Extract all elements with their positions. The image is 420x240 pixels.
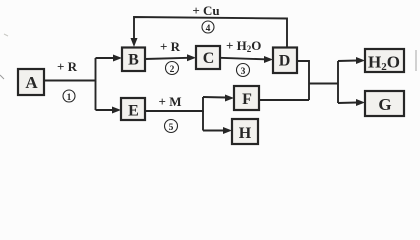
svg-text:+ Cu: + Cu: [192, 3, 219, 18]
wire F to merge: [259, 99, 309, 101]
label +H2O step 3: [226, 38, 261, 54]
svg-text:+ R: + R: [160, 39, 181, 54]
wire D to B (+Cu path): [131, 17, 288, 47]
arrow split to E: [96, 107, 122, 114]
svg-text:H: H: [239, 125, 252, 142]
wire A to split: [44, 58, 96, 110]
svg-text:+ M: + M: [159, 94, 182, 109]
svg-text:A: A: [25, 73, 38, 92]
circled 2: [166, 62, 179, 76]
arrow split to B: [96, 55, 123, 62]
circled 4: [202, 21, 214, 34]
label +M step 5: [159, 94, 182, 109]
box E: [121, 98, 145, 120]
box H: [232, 119, 258, 144]
svg-text:+ R: + R: [57, 59, 78, 74]
svg-text:3: 3: [241, 67, 246, 77]
wire merge to split: [309, 61, 338, 103]
arrow split to F: [203, 95, 234, 102]
smudge right edge: [415, 50, 417, 71]
circled 3: [237, 64, 250, 78]
svg-text:B: B: [128, 52, 139, 69]
circled 1: [63, 90, 75, 103]
box A: [18, 69, 44, 95]
box F: [234, 86, 259, 110]
speck top left: [4, 34, 8, 36]
arrow split to H: [203, 127, 232, 134]
box H2O: [365, 49, 404, 73]
wire D to merge: [297, 61, 309, 100]
svg-text:C: C: [203, 50, 215, 67]
svg-text:G: G: [378, 95, 391, 114]
label +R step 2: [160, 39, 181, 54]
svg-text:1: 1: [67, 93, 72, 103]
arrow split to H2O: [338, 57, 365, 64]
svg-text:5: 5: [169, 123, 174, 133]
svg-text:D: D: [279, 53, 291, 70]
label +R step 1: [57, 59, 78, 74]
arrow B to C: [145, 54, 196, 61]
wire E to split: [145, 97, 203, 131]
svg-text:+ H2O: + H2O: [226, 38, 261, 54]
svg-text:E: E: [128, 103, 139, 120]
box B: [122, 48, 145, 72]
svg-text:F: F: [242, 91, 252, 108]
box G: [365, 91, 404, 116]
svg-text:2: 2: [170, 65, 175, 75]
smudge left edge: [0, 75, 4, 79]
circled 5: [165, 120, 178, 134]
label +Cu step 4: [192, 3, 219, 18]
arrow split to G: [338, 99, 365, 106]
box C: [196, 46, 220, 69]
svg-text:4: 4: [206, 24, 211, 34]
box D: [273, 48, 297, 74]
arrow C to D: [220, 56, 273, 63]
